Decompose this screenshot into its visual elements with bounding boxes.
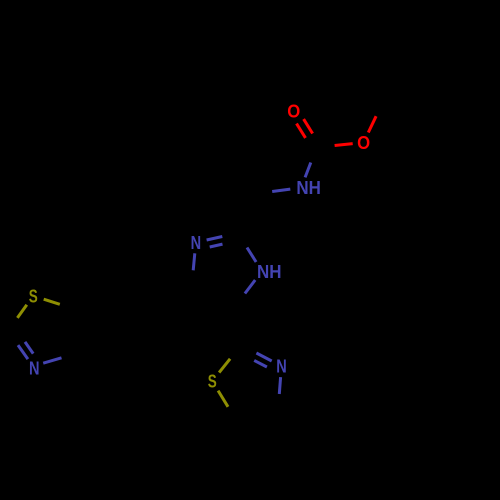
svg-text:O: O: [287, 102, 300, 122]
svg-text:N: N: [191, 233, 202, 253]
svg-text:NH: NH: [257, 262, 282, 282]
bond O=C carbonyl line1: [297, 124, 306, 138]
imidazole N3-C4: [193, 253, 195, 270]
svg-text:S: S: [208, 372, 217, 392]
benzothiazole N-C3a bond N half: [43, 358, 61, 363]
imidazole N1-C2: [247, 248, 256, 263]
bond C-O ester O half: [335, 144, 353, 146]
svg-text:O: O: [357, 133, 370, 153]
svg-text:N: N: [29, 359, 40, 379]
bond NH-CH2 N half: [272, 189, 290, 191]
bond O=C carbonyl line2: [304, 119, 313, 133]
svg-text:N: N: [276, 357, 287, 377]
imidazole N3=C2 main: [207, 237, 223, 241]
benzothiazole S-C7a: [44, 299, 60, 304]
thiazole S-C5: [218, 391, 228, 407]
svg-text:NH: NH: [296, 178, 321, 198]
benzothiazole C2=N main: [18, 345, 28, 359]
imidazole N3=C2 inner: [210, 244, 223, 247]
thiazole S-C2: [219, 359, 230, 373]
imidazole N1-C5: [245, 280, 255, 294]
thiazole C2=N inner: [254, 360, 267, 367]
benzothiazole S-C2: [17, 305, 26, 318]
benzothiazole C2=N inner: [25, 342, 33, 354]
thiazole C2=N main: [256, 353, 271, 361]
bond C-NH N half: [305, 163, 311, 178]
svg-text:S: S: [29, 286, 38, 306]
bond O-CH2 benzyl O half: [368, 116, 376, 132]
thiazole N-C4: [279, 377, 280, 394]
